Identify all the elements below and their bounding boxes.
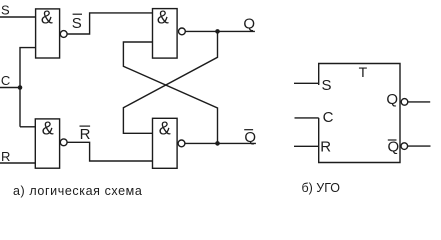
wire cross-coupling from Q to DD1.4 first input [123, 31, 217, 133]
svg-text:а) логическая схема: а) логическая схема [13, 184, 142, 198]
svg-text:C: C [323, 109, 334, 126]
wire S input of U1 [294, 82, 319, 84]
svg-text:R: R [1, 149, 10, 164]
svg-text:C: C [1, 73, 10, 88]
wire Q-bar output [185, 142, 256, 144]
inversion bubble Q-bar output of U1 [401, 143, 408, 150]
svg-text:R: R [80, 126, 91, 143]
wire C input [0, 87, 20, 89]
inversion bubble DD1.1 output [60, 31, 67, 38]
wire Q output [185, 30, 255, 32]
junction dot node C [18, 85, 23, 90]
svg-text:T: T [359, 64, 368, 80]
flip-flop symbol U1 body outline [319, 64, 400, 163]
wire S input to DD1.1 [0, 16, 36, 18]
node Q-bar overline [244, 129, 253, 131]
wire R input to DD1.2 [0, 162, 35, 164]
node /R overline [80, 125, 91, 127]
svg-text:&: & [157, 8, 169, 28]
wire C input of U1 [295, 117, 319, 119]
svg-text:S: S [322, 77, 332, 94]
svg-text:S: S [1, 3, 10, 18]
nand gate DD1.3 body [153, 9, 178, 59]
inversion bubble DD1.3 output [179, 28, 186, 35]
svg-text:б) УГО: б) УГО [302, 181, 341, 195]
wire C branch to DD1.2 first input [20, 126, 35, 128]
wire cross-coupling from Q-bar to DD1.3 second input [123, 42, 217, 143]
inversion bubble DD1.4 output [178, 140, 185, 147]
svg-text:Q: Q [243, 15, 255, 32]
nand gate DD1.4 body [153, 118, 178, 168]
svg-text:Q: Q [386, 91, 398, 108]
svg-text:Q: Q [388, 138, 400, 155]
svg-text:R: R [320, 139, 331, 156]
inversion bubble Q output of U1 [401, 99, 408, 106]
svg-text:&: & [159, 118, 171, 138]
junction dot node Q [215, 29, 220, 34]
nand gate DD1.2 body [35, 119, 59, 168]
pin label Q-bar overline of U1 [388, 139, 397, 141]
svg-text:S: S [72, 15, 82, 32]
junction dot node Q-bar [215, 141, 220, 146]
wire Q output of U1 [408, 101, 430, 103]
svg-text:Q: Q [244, 129, 256, 146]
wire Q-bar output of U1 [408, 145, 431, 147]
wire /R net from DD1.2 to DD1.4 [67, 142, 152, 161]
svg-text:&: & [41, 8, 53, 28]
svg-text:&: & [42, 119, 54, 139]
node /S overline [73, 13, 82, 15]
wire C branch to DD1.1 second input [20, 48, 36, 127]
inversion bubble DD1.2 output [60, 139, 67, 146]
wire R input of U1 [294, 145, 319, 147]
nand gate DD1.1 body [36, 9, 60, 58]
wire /S net from DD1.1 to DD1.3 [67, 13, 152, 34]
